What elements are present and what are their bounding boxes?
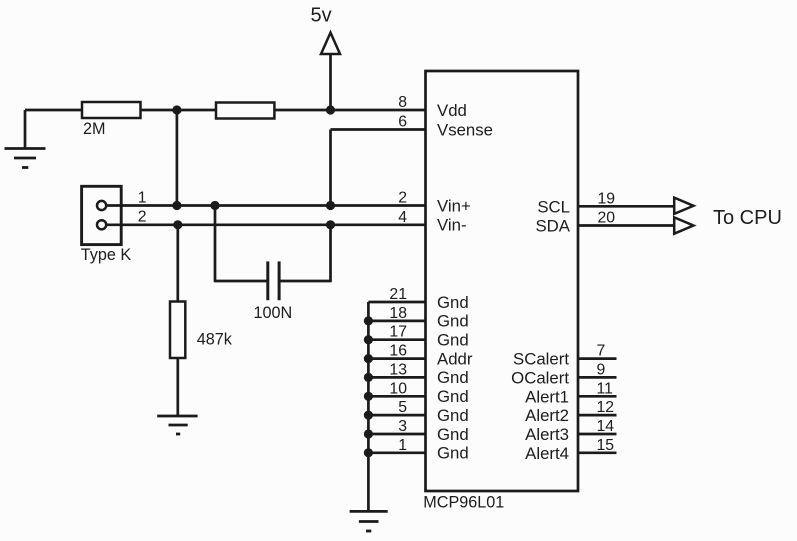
- svg-text:6: 6: [398, 114, 407, 131]
- svg-text:5v: 5v: [311, 5, 332, 27]
- wire gnd pin stub y377.4: [368, 376, 425, 379]
- junction on gnd bus y320.9: [364, 316, 373, 325]
- svg-text:11: 11: [597, 380, 614, 397]
- pin 9 OCalert wire: [578, 376, 617, 379]
- pin 20 SDA wire: [578, 224, 674, 227]
- pin 15 label Alert4: [525, 437, 614, 463]
- pin 19 label SCL: [537, 190, 615, 216]
- wire gnd pin stub y302: [368, 301, 425, 304]
- ground GND2 (below 487k): [157, 416, 197, 434]
- arrow to CPU (SDA): [674, 217, 693, 233]
- svg-text:Vsense: Vsense: [437, 120, 493, 139]
- connector J1 Type K: [81, 186, 132, 264]
- svg-text:To CPU: To CPU: [713, 207, 782, 229]
- svg-text:19: 19: [598, 190, 616, 207]
- wire Vin- line (Type K pin2 to chip pin4): [107, 223, 426, 226]
- pin 3 label + name Gnd: [398, 418, 469, 444]
- wire Vsense from chip down to Vin+: [331, 130, 426, 206]
- svg-text:MCP96L01: MCP96L01: [423, 494, 504, 512]
- pin 8 label + name Vdd: [398, 94, 467, 120]
- svg-text:Gnd: Gnd: [437, 312, 469, 331]
- wire cap right leg: [279, 225, 330, 282]
- pin 14 Alert3 wire: [578, 433, 617, 436]
- pin 21 label + name Gnd: [389, 286, 468, 312]
- capacitor 100N: [254, 261, 293, 322]
- svg-text:20: 20: [598, 210, 616, 227]
- svg-text:4: 4: [398, 209, 407, 226]
- junction on gnd bus y415.1: [364, 411, 373, 420]
- junction on gnd bus y358.6: [364, 354, 373, 363]
- wire cap left leg: [215, 206, 268, 283]
- junction on gnd bus y434: [364, 429, 373, 438]
- pin 1 label + name Gnd: [398, 437, 469, 463]
- gnd bus vertical wire: [367, 302, 370, 513]
- svg-text:Alert1: Alert1: [525, 387, 569, 406]
- wire gnd pin stub y320.9: [368, 320, 425, 323]
- node junction on Vin+ at x177: [172, 201, 181, 210]
- wire gnd pin stub y434: [368, 433, 425, 436]
- pin 9 label OCalert: [511, 361, 605, 387]
- svg-text:Gnd: Gnd: [437, 331, 469, 350]
- svg-text:Alert2: Alert2: [525, 406, 569, 425]
- pin 13 label + name Gnd: [389, 361, 468, 387]
- svg-text:Vin+: Vin+: [437, 196, 471, 215]
- wire R2 to 5v node: [274, 109, 425, 112]
- svg-text:487k: 487k: [197, 331, 233, 349]
- svg-text:SCalert: SCalert: [513, 350, 569, 369]
- svg-text:9: 9: [597, 361, 606, 378]
- resistor R2 (unlabeled): [216, 103, 274, 119]
- pin 11 Alert1 wire: [578, 395, 617, 398]
- svg-text:3: 3: [398, 418, 407, 435]
- svg-text:7: 7: [597, 343, 606, 360]
- junction on gnd bus y396.3: [364, 392, 373, 401]
- pin 7 SCalert wire: [578, 357, 617, 360]
- node junction cap-left on Vin+: [210, 201, 219, 210]
- resistor 2M: [82, 102, 141, 138]
- svg-text:17: 17: [389, 324, 407, 341]
- svg-text:5: 5: [398, 399, 407, 416]
- wire 487k to ground: [176, 358, 179, 416]
- svg-text:1: 1: [138, 190, 147, 207]
- ground GND1: [5, 110, 46, 168]
- ground GND3 (below bus): [350, 511, 388, 531]
- wire gnd pin stub y358.6: [368, 357, 425, 360]
- svg-text:Type K: Type K: [81, 246, 132, 264]
- svg-text:Gnd: Gnd: [437, 425, 469, 444]
- svg-text:Gnd: Gnd: [437, 406, 469, 425]
- svg-text:14: 14: [597, 418, 615, 435]
- wire gnd pin stub y339.7: [368, 338, 425, 341]
- wire gnd to 2M: [25, 109, 83, 112]
- svg-text:2: 2: [398, 190, 407, 207]
- svg-text:Gnd: Gnd: [437, 368, 469, 387]
- node B junction (5v rail): [326, 105, 335, 114]
- svg-text:12: 12: [597, 399, 615, 416]
- junction on gnd bus y339.7: [364, 335, 373, 344]
- arrow to CPU (SCL): [674, 198, 693, 214]
- pin 16 label + name Addr: [389, 343, 472, 369]
- wire gnd pin stub y452.8: [368, 451, 425, 454]
- node junction Vsense on Vin+: [326, 201, 335, 210]
- svg-text:1: 1: [398, 437, 407, 454]
- svg-text:16: 16: [389, 343, 407, 360]
- power 5v supply: [311, 5, 341, 111]
- svg-text:Gnd: Gnd: [437, 387, 469, 406]
- pin 15 Alert4 wire: [578, 451, 617, 454]
- svg-text:10: 10: [389, 380, 407, 397]
- svg-text:8: 8: [398, 94, 407, 111]
- pin 12 Alert2 wire: [578, 414, 617, 417]
- svg-text:Gnd: Gnd: [437, 293, 469, 312]
- resistor 487k: [170, 302, 233, 359]
- wire node A down to Vin+ line: [176, 110, 179, 206]
- node A junction: [172, 105, 181, 114]
- junction on gnd bus y452.8: [364, 448, 373, 457]
- svg-text:OCalert: OCalert: [511, 368, 569, 387]
- svg-text:Alert4: Alert4: [525, 444, 569, 463]
- junction on gnd bus y377.4: [364, 373, 373, 382]
- pin 11 label Alert1: [525, 380, 613, 406]
- wire gnd pin stub y415.1: [368, 414, 425, 417]
- svg-text:Alert3: Alert3: [525, 425, 569, 444]
- svg-text:13: 13: [389, 361, 407, 378]
- IC U1 MCP96L01 body: [426, 71, 579, 491]
- pin 5 label + name Gnd: [398, 399, 469, 425]
- pin 7 label SCalert: [513, 343, 605, 369]
- pin 12 label Alert2: [525, 399, 614, 425]
- svg-text:18: 18: [389, 305, 407, 322]
- pin 2 label + name Vin+: [398, 190, 471, 216]
- svg-text:Vin-: Vin-: [437, 216, 467, 235]
- node junction cap-right on Vin-: [326, 220, 335, 229]
- svg-text:2: 2: [138, 209, 147, 226]
- pin 18 label + name Gnd: [389, 305, 468, 331]
- svg-text:Vdd: Vdd: [437, 101, 467, 120]
- svg-text:Gnd: Gnd: [437, 444, 469, 463]
- svg-text:SDA: SDA: [535, 217, 570, 236]
- wire gnd pin stub y396.3: [368, 395, 425, 398]
- pin 14 label Alert3: [525, 418, 614, 444]
- svg-text:SCL: SCL: [537, 197, 570, 216]
- wire Vin- down to 487k: [176, 225, 179, 302]
- svg-text:100N: 100N: [254, 304, 293, 322]
- pin 17 label + name Gnd: [389, 324, 468, 350]
- svg-text:21: 21: [389, 286, 407, 303]
- svg-text:2M: 2M: [83, 120, 106, 138]
- svg-text:15: 15: [597, 437, 615, 454]
- pin 6 label + name Vsense: [398, 114, 493, 140]
- wire 2M to node A: [141, 109, 218, 112]
- pin 19 SCL wire: [578, 205, 674, 208]
- pin 20 label SDA: [535, 210, 615, 236]
- pin 10 label + name Gnd: [389, 380, 468, 406]
- pin 4 label + name Vin-: [398, 209, 466, 235]
- svg-text:Addr: Addr: [437, 349, 473, 368]
- wire Vin+ line (Type K pin1 to chip pin2): [107, 204, 426, 207]
- node junction 487k on Vin-: [173, 220, 182, 229]
